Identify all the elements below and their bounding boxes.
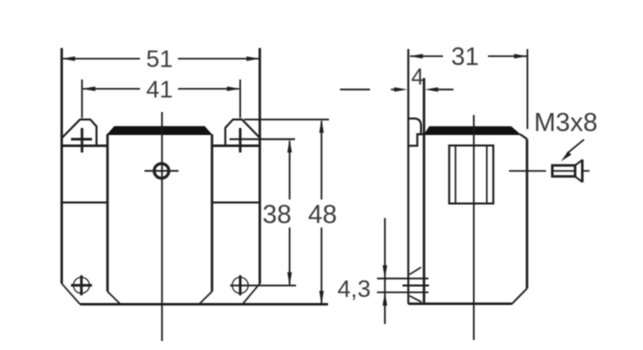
front view: black gasket strip: [108, 127, 212, 135]
front view: bottom-right hole circle: [232, 277, 248, 293]
side view: hole chamfer tick below: [410, 296, 422, 302]
svg-text:48: 48: [308, 199, 337, 229]
side view: body left edge with dimension-4 extension above: [423, 78, 426, 304]
svg-text:51: 51: [146, 46, 173, 73]
dimension 4,3 line, arrows pointing inward from outside: [384, 218, 386, 324]
screw M3x8: shank: [552, 165, 575, 176]
dimension 31 right extension line: [526, 49, 528, 129]
svg-text:4,3: 4,3: [337, 276, 370, 303]
front view: right tab outline: [225, 120, 259, 146]
dimension 48 line and arrows: [321, 121, 323, 200]
front view: column bottom-left chamfer: [108, 292, 121, 305]
front view: lower shoulder line right: [212, 202, 260, 204]
front view: bottom-right chamfer: [243, 284, 260, 305]
screw M3x8: head cone top: [575, 160, 582, 165]
front view: bottom-left chamfer: [62, 284, 80, 305]
front view: right tab hole crosshair, horizontal doubles as 38 extension: [239, 128, 242, 153]
side view: bottom edge: [408, 303, 511, 306]
side view: mounting hole top edge / 4,3 extension: [377, 278, 429, 280]
front view: bottom-left hole crosshair: [71, 284, 92, 287]
dimension 41 extension lines: [81, 80, 83, 119]
side view: hole chamfer tick above: [410, 267, 422, 274]
side view: flange left edge with 31/4 extension above: [407, 49, 409, 304]
svg-text:M3x8: M3x8: [534, 107, 598, 137]
dimension 41 line and arrows: [83, 88, 140, 90]
screw M3x8: head cone bottom: [575, 176, 582, 182]
dimension 31 line and arrows: [410, 55, 443, 57]
dimension 38 line and arrows: [289, 141, 291, 200]
side view: coil outline rectangle: [449, 146, 493, 204]
side view: ear profile with rounded corner: [408, 119, 421, 146]
side view: mounting hole bottom edge / 4,3 extension: [377, 291, 429, 293]
front view: left outer edge with 51 extension line: [60, 48, 63, 284]
front view: bottom edge extended right as 48 extension: [80, 303, 328, 306]
dimension 48 top extension line: [244, 119, 329, 121]
front view: left tab outline: [62, 120, 97, 146]
front view: central column right edge: [211, 134, 214, 291]
side view: short shoulder between ear and body: [417, 133, 424, 135]
svg-text:31: 31: [451, 43, 479, 71]
side view: top-right corner chamfer: [520, 134, 527, 139]
side view: vertical centre line: [473, 115, 475, 340]
front view: left tab hole crosshair: [81, 128, 84, 153]
front view: upper shoulder line right: [212, 145, 260, 148]
front view: vertical centre line: [161, 112, 163, 341]
screw M3x8: head face: [581, 160, 584, 183]
front view: column bottom-right chamfer: [199, 292, 212, 305]
front view: central column left edge: [106, 134, 109, 291]
svg-text:4: 4: [411, 64, 424, 90]
side view: mounting hole centre line: [403, 285, 430, 287]
front view: bottom-right hole crosshair, horizontal doubles as 38 extension: [230, 285, 296, 287]
screw M3x8: leader line with arrowhead: [567, 140, 584, 154]
svg-text:38: 38: [263, 199, 292, 229]
dimension 4 line, outside arrows: [340, 89, 370, 91]
side view: black gasket strip: [425, 127, 521, 135]
front view: upper shoulder line left: [62, 145, 108, 148]
front view: centre sound hole: [154, 164, 169, 179]
side view: right edge: [526, 139, 529, 289]
screw M3x8: centre line: [509, 170, 546, 172]
side view: bottom-right chamfer: [512, 289, 528, 305]
front view: right outer edge with 51 extension line: [259, 48, 262, 284]
front view: bottom-left hole circle: [73, 277, 89, 293]
front view: sound hole crosshair horizontal: [145, 170, 179, 172]
side view: coil inner vertical lines: [455, 146, 457, 204]
svg-text:41: 41: [146, 76, 173, 103]
dimension 51 line and arrows: [63, 58, 140, 60]
front view: lower shoulder line left: [62, 202, 108, 204]
